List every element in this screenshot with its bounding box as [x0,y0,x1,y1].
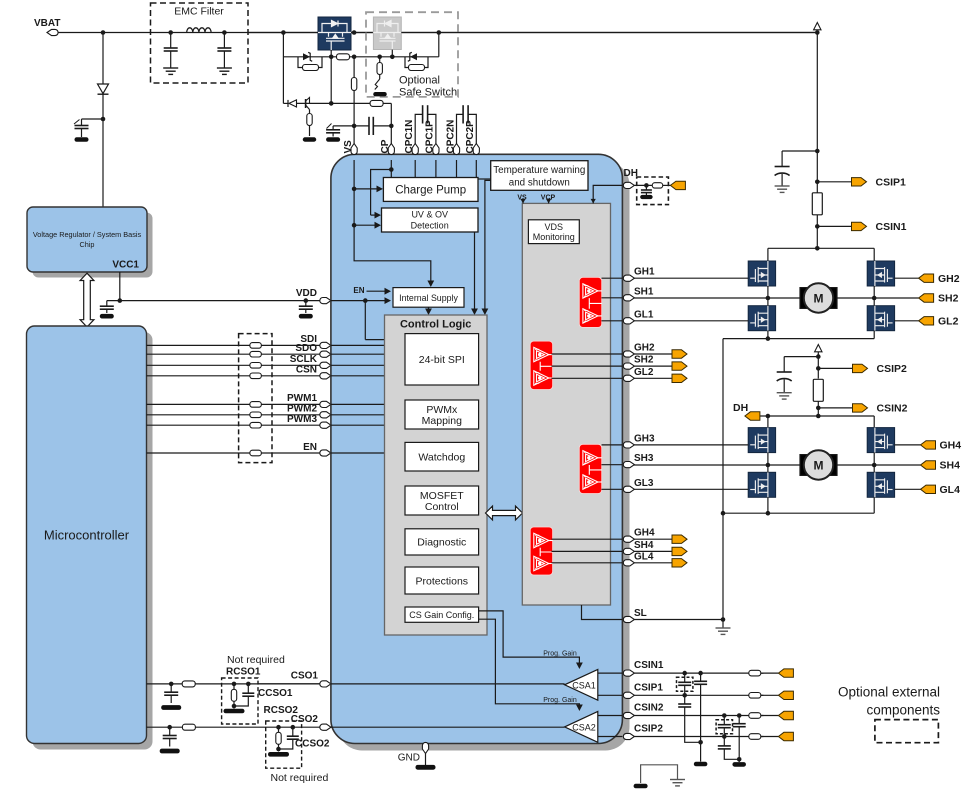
wire CSIP2 external [634,736,763,738]
wire SL external [634,619,723,621]
wire CP network line [283,103,391,143]
capacitor C13 (CSO2) [160,725,180,753]
svg-text:Safe Switch: Safe Switch [399,87,457,99]
Microcontroller block [27,326,153,750]
svg-text:PWM1: PWM1 [287,393,317,404]
pin CPC1N [404,120,418,155]
pin SH2 [623,355,654,370]
transistor Q10 bridge2 high-right [867,428,894,453]
wire GL2 connector [634,377,672,379]
wire SCLK [147,364,323,366]
transistor Q1 reverse polarity MOSFET (navy box) [318,17,351,50]
wire CP cap line [333,124,394,129]
ground GND terminal [416,754,436,770]
resistor series PWM1 [250,402,262,408]
svg-text:CSA2: CSA2 [572,722,596,732]
svg-text:PWM3: PWM3 [287,414,317,425]
dashed box series resistors [239,334,272,463]
connector SH4 (bridge) [921,460,961,472]
pin VDD [296,288,331,304]
pin GL2 [623,367,654,382]
label RCSO2 group [264,705,330,784]
node CSIP1 tap [815,180,852,185]
wire GH2 to connector [895,277,919,279]
svg-text:M: M [814,458,824,472]
connector GL4 (IC) [672,559,687,567]
svg-text:CPC2P: CPC2P [465,120,476,154]
resistor series CSIN1 [749,670,761,676]
svg-text:CSIN1: CSIN1 [634,660,664,671]
wire GH4 to connector [895,444,921,446]
connector GL4 (bridge) [921,484,961,496]
wire VDD internal [331,297,391,304]
svg-text:SCLK: SCLK [290,354,318,365]
bus arrow regulator-microcontroller [80,273,94,327]
pin CPC2N [445,120,459,155]
wire VCC1 [118,272,123,303]
net VBAT top rail wire [58,32,817,34]
wire CSIP2 to connector [761,736,779,738]
svg-text:components: components [866,703,940,718]
pin GL1 [623,309,654,324]
svg-text:CCSO1: CCSO1 [258,688,293,699]
capacitor C12 (CSO1) [161,682,181,710]
Voltage Regulator / System Basis Chip block [27,207,153,278]
pin CSIP1 [623,682,663,698]
EMC Filter dashed box [151,3,249,83]
svg-text:SH4: SH4 [940,460,961,472]
wire CSIN1 external [634,672,763,674]
connector SH4 (IC) [672,547,687,555]
motor M1 [800,283,837,312]
connector GL2 (bridge) [919,316,959,328]
wire DH external [634,184,670,186]
resistor R10 (DH) [652,183,663,188]
wire SPI pins internal [331,345,406,375]
svg-text:GH2: GH2 [634,343,655,354]
connector GH4 (bridge) [921,440,962,452]
pin GL4 [623,551,654,566]
wire GL3 pad [602,488,623,490]
wire PWM2 [147,414,323,416]
resistor R6 shunt bridge1 [812,193,822,215]
block Watchdog [405,442,479,471]
capacitor C10 (VDD left) [100,301,114,319]
wire CSA2 inputs [598,716,623,737]
inductor L1 (EMC) [187,28,211,33]
svg-text:CSN: CSN [296,365,317,376]
ground SL [716,620,731,635]
svg-text:GH2: GH2 [938,273,960,285]
wire temp to control logic [482,180,491,315]
block 24-bit SPI [405,334,479,385]
pin SH1 [623,286,654,301]
connector GH2 (IC) [672,350,687,358]
resistor R8 (CSO1) [182,681,195,687]
svg-text:CS Gain Config.: CS Gain Config. [409,610,474,620]
pin EN [303,442,331,456]
pin VS [343,140,357,155]
connector CSIN2 (bridge) [853,403,908,415]
capacitor C5 (VS electrolytic) [326,124,340,142]
pin GH1 [623,267,655,282]
svg-text:Chip: Chip [79,240,94,249]
transistor Q2 safe switch MOSFET (gray box) [373,17,401,50]
pin CSIP2 [623,724,663,740]
block VDS Monitoring [528,220,579,244]
svg-text:Optional: Optional [399,75,440,87]
transistor Q9 bridge2 high-left [748,428,775,453]
pin GL3 [623,478,654,493]
svg-text:VDD: VDD [296,288,317,299]
svg-text:SH4: SH4 [634,540,654,551]
diode D2 (clamp) [288,100,297,107]
node VS column [351,57,356,144]
svg-text:GL3: GL3 [634,478,654,489]
transistor Q12 bridge2 low-right [867,472,894,497]
block MOSFET Control [405,486,479,515]
wire SH4 connector [634,550,672,552]
resistor series CSN [250,373,262,379]
svg-text:VBAT: VBAT [34,18,60,29]
gate driver cell GH2/SH2/GL2 [530,341,552,389]
resistor R7 shunt bridge2 [813,379,823,401]
transistor Q4 [306,98,310,114]
capacitor C4 (CP flying) [369,117,373,135]
pin CSN [296,365,331,379]
resistor series SDI [250,343,262,349]
DH snubber dashed box [637,177,669,205]
svg-text:EN: EN [303,442,317,453]
pin GND [398,742,429,763]
wire motor2 leads [768,464,874,466]
pin CSIN1 [623,660,664,676]
svg-text:RCSO1: RCSO1 [226,667,261,678]
connector CSIN1 (external) [778,669,793,677]
wire SH1 [634,297,768,299]
label VCP arrow into driver [541,195,556,204]
svg-text:SH3: SH3 [634,453,654,464]
connector GH2 (bridge) [919,273,960,285]
resistor series PWM2 [250,412,262,418]
svg-text:VS: VS [343,140,354,154]
optional components dashed box [875,720,939,743]
node navy FET source [329,50,334,106]
svg-text:Optional external: Optional external [838,685,940,700]
wire VDD [107,300,323,302]
capacitor C2 (EMC right) [217,30,232,74]
RCSO2 dashed box [266,721,302,768]
block CS Gain Config. [405,607,479,622]
svg-text:CCSO2: CCSO2 [295,739,330,750]
op-amp CSA1 [565,669,598,700]
resistor series CSIN2 [749,713,761,719]
wire GL1 [634,320,748,322]
wire SL from driver [582,605,623,620]
wire CSN [147,375,323,377]
resistor RCSO1 [231,682,236,709]
capacitor C15 dashed (CSIN1-CSIP1) [677,671,693,698]
resistor series PWM3 [250,422,262,428]
wire SH3 pad [602,464,623,466]
zener diode Z1 with resistor [298,52,322,70]
wire CSA2 output to CSO2 [331,726,565,728]
svg-text:SH1: SH1 [634,286,654,297]
capacitor CCSO2 [268,725,299,757]
svg-text:Protections: Protections [416,575,469,587]
safe switch gate branch resistor R2 [377,55,382,80]
connector CSIP2 (external) [778,732,793,740]
wire GH4 pad [552,538,623,540]
capacitor C6 (CPC1 flying) [415,105,436,143]
svg-text:GH1: GH1 [634,267,655,278]
wire GH4 connector [634,538,672,540]
wire PWM3 [147,424,323,426]
svg-text:GL2: GL2 [938,316,959,328]
block UV OV Detection [382,208,479,232]
block Temperature warning and shutdown [478,161,588,191]
connector GL2 (IC) [672,374,687,382]
svg-text:CSO2: CSO2 [291,714,319,725]
svg-text:Microcontroller: Microcontroller [44,528,130,543]
op-amp CSA2 [565,712,598,743]
svg-text:GND: GND [398,753,420,764]
node CSIN2 tap [816,401,853,416]
node VBAT to bridge2 marker [815,345,822,379]
wire CSA1 output to CSO1 [331,683,565,685]
transistor Q3 gate discharge [373,79,387,96]
pin GH2 [623,343,655,358]
wire SH1 node [766,286,877,306]
wire EN internal [331,452,385,454]
wire FET to safe switch [351,32,373,34]
wire CSIP1 external [634,694,763,696]
svg-text:Detection: Detection [411,221,449,231]
svg-text:Prog. Gain: Prog. Gain [543,697,577,704]
node VS column top [352,30,357,59]
node CSIP2 tap [816,366,853,371]
transistor Q8 bridge1 low-right [867,306,894,331]
VBAT connector [34,18,60,36]
svg-text:Not required: Not required [227,654,285,666]
main driver IC block [331,154,630,750]
wire GH3 pad [602,444,623,446]
svg-text:CSIN1: CSIN1 [876,221,907,233]
block PWMx Mapping [405,400,479,429]
wire SH2 connector [634,365,672,367]
wire CSIP1 to connector [761,694,779,696]
pin SH3 [623,453,654,468]
svg-text:Mapping: Mapping [422,415,462,427]
capacitor C3 (regulator input) [74,119,103,142]
ground star wire [634,765,685,789]
svg-text:Voltage Regulator / System Bas: Voltage Regulator / System Basis [33,230,142,239]
wire CP internal [371,160,394,219]
transistor Q6 bridge1 high-right [867,261,894,286]
svg-text:and shutdown: and shutdown [509,178,570,189]
svg-text:Not required: Not required [271,772,329,784]
svg-text:CPC2N: CPC2N [445,120,456,154]
pin CSO1 [291,671,331,687]
resistor series SCLK [250,363,262,369]
pin CPC1P [425,120,439,155]
block Internal Supply [393,288,464,308]
svg-text:GL2: GL2 [634,367,654,378]
wire SH3 [634,464,768,466]
wire GL3 [634,488,748,490]
block Diagnostic [405,529,479,555]
wire VS internal [354,160,434,287]
wire VS to UV OV [352,222,381,229]
node gray FET source [390,50,395,60]
zener diode Z2 with resistor [405,52,428,70]
wire CSO2 [147,726,323,728]
bus arrow control-driver [486,506,523,520]
wire to reverse-polarity switch [248,32,318,34]
svg-text:CPC1P: CPC1P [425,120,436,154]
svg-text:Monitoring: Monitoring [533,232,575,242]
pin CP [380,139,394,154]
wire VDD to SPI [365,301,403,343]
svg-text:Temperature warning: Temperature warning [493,165,585,176]
svg-text:Prog. Gain: Prog. Gain [543,650,577,657]
svg-text:VCC1: VCC1 [112,260,139,271]
wire GH2 pad [552,353,623,355]
svg-text:Watchdog: Watchdog [418,451,465,463]
connector CSIP1 (bridge) [852,177,907,189]
svg-text:GL4: GL4 [634,551,654,562]
wire SDO [147,353,323,355]
transistor Q7 bridge1 low-left [748,306,775,331]
svg-text:GH4: GH4 [940,440,962,452]
svg-text:CSIN2: CSIN2 [877,403,908,415]
wire EN [147,452,323,454]
wire safe switch to right rail [401,30,817,35]
capacitor C16 (CSIN1) [694,671,708,767]
wire bridge1 top bus [768,246,874,261]
svg-text:GH4: GH4 [634,528,655,539]
wire CSO1 [147,683,323,685]
svg-text:Control: Control [425,501,459,513]
diode D1 [98,84,109,119]
svg-text:Diagnostic: Diagnostic [417,537,466,549]
wire SH1 pad [602,297,623,299]
pin CSO2 [291,714,331,731]
svg-text:EN: EN [353,286,364,295]
resistor R5 (VS series) [0,0,1,1]
wire CSIN2 external [634,715,763,717]
wire CSIN1 to connector [761,672,779,674]
wire CSIN2 to connector [761,715,779,717]
wire VS to charge pump [352,186,383,193]
resistor R1 (bus) [337,54,350,60]
motor M2 [800,450,837,479]
capacitor C14 (DH) [640,183,653,199]
wire SH3 node [766,453,877,473]
wire bridge2 bottom bus [723,497,874,515]
wire CSO1 to pin [258,683,323,685]
wire GH2 connector [634,353,672,355]
Optional Safe Switch dashed box [366,12,458,98]
svg-text:CSA1: CSA1 [572,680,596,690]
resistor series CSIP1 [749,693,761,699]
resistor series EN [250,450,262,456]
svg-text:CSIP1: CSIP1 [876,177,907,189]
svg-text:CSIP2: CSIP2 [634,724,663,735]
label VS arrow into driver [517,195,527,204]
capacitor C17 (CSIP1) [678,695,700,742]
wire UV OV to control logic [471,232,478,315]
svg-text:DH: DH [624,168,638,179]
wire GL2 to connector [895,320,919,322]
wire GL4 pad [552,562,623,564]
svg-text:M: M [814,291,824,305]
svg-text:DH: DH [733,402,748,414]
wire GH3 [634,444,748,446]
pin CPC2P [465,120,479,155]
wire GL4 connector [634,562,672,564]
connector SH2 (IC) [672,362,687,370]
svg-text:GH3: GH3 [634,433,655,444]
wire CSA1 inputs [598,673,623,695]
block Charge Pump [383,178,478,202]
svg-text:PWM2: PWM2 [287,404,317,415]
svg-text:UV & OV: UV & OV [411,210,448,220]
svg-text:24-bit SPI: 24-bit SPI [419,354,465,366]
RCSO1 dashed box [222,678,258,724]
wire SH4 pad [552,550,623,552]
gate driver cell GH4/SH4/GL4 [530,527,552,575]
connector DH (top) [670,181,685,189]
resistor R4 (CP series) [370,100,383,106]
svg-text:SL: SL [634,608,647,619]
wire motor1 leads [768,297,874,299]
connector DH (bridge2) [733,402,760,420]
pin GH3 [623,433,655,448]
svg-text:Control Logic: Control Logic [400,319,472,331]
capacitor C9 (bridge2 bulk) [777,354,821,399]
svg-text:VDS: VDS [545,222,564,232]
connector CSIP2 (bridge) [853,363,908,375]
svg-text:CSIP2: CSIP2 [877,363,908,375]
svg-text:Charge Pump: Charge Pump [395,185,466,197]
wire ground bus down [721,339,726,622]
wire prog gain 1 [479,611,583,669]
wire internal supply to control logic [425,307,432,315]
wire SH2 pad [552,365,623,367]
pin SH4 [623,540,654,555]
capacitor C1 (EMC left) [163,30,178,74]
wire VBAT drop to bridge1 [816,33,818,193]
pin SCLK [290,354,331,368]
block Protections [405,567,479,594]
pin SDO [295,343,331,357]
svg-text:SH2: SH2 [634,355,654,366]
capacitor C11 (VDD at pin) [299,298,313,318]
wire GH1 pad [602,277,623,279]
pin PWM3 [287,414,331,428]
block Control Logic [385,315,488,635]
label RCSO1 group [226,654,293,699]
node CSIN1 tap [815,215,852,249]
gate driver cell GH3/SH3/GL3 [579,444,601,493]
wire DH bus bridge2 [760,414,874,428]
pin DH [623,168,638,188]
svg-text:GL4: GL4 [940,484,961,496]
resistor R3 [303,114,317,142]
resistor RCSO2 [276,725,281,751]
resistor series CSIP2 [749,734,761,740]
